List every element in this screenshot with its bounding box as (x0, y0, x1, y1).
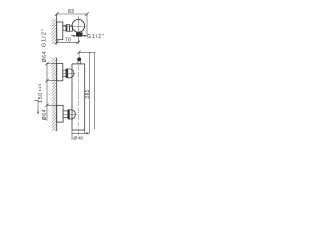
extension line at upper escutcheon bottom (47, 80, 57, 82)
svg-text:Ø64: Ø64 (42, 51, 48, 62)
tick at y=80.6 (45, 79, 48, 82)
svg-text:G1/2": G1/2" (42, 28, 48, 47)
extension line far right (94, 52, 96, 129)
wall section hatching (top view) (52, 19, 57, 45)
shower outlet stub (top view) (76, 33, 82, 37)
svg-text:281: 281 (85, 89, 91, 98)
svg-text:70: 70 (65, 38, 72, 44)
svg-text:Ø48: Ø48 (73, 135, 83, 141)
body tube centerline (dashed) (77, 65, 79, 130)
extension below tube left (71, 130, 73, 140)
lower union nut (dark) (68, 110, 70, 120)
dimension line D48 bottom (72, 132, 90, 134)
tick at y=63.5 (45, 62, 48, 65)
knob horizontal centerline (63, 25, 85, 27)
lower union pipe (63, 111, 68, 118)
knob circle (top view) (72, 19, 85, 32)
upper union centerline (63, 72, 76, 74)
tick right of dim 83 (85, 12, 89, 16)
dimension line 83 (57, 13, 87, 15)
top port neck (77, 61, 79, 64)
upper union pipe (63, 70, 66, 76)
union pipe (top view) (63, 26, 66, 31)
upper union dome (68, 69, 74, 78)
body tube left edge (71, 64, 73, 130)
left dimension vertical line (46, 64, 48, 121)
lower union centerline (63, 113, 77, 115)
port centerline stub (78, 52, 80, 57)
upper escutcheon (57, 64, 63, 81)
tick at top extension (77, 51, 80, 54)
body tube right edge (84, 64, 86, 130)
outlet dimension line left with arrow (71, 35, 76, 37)
lower escutcheon (57, 105, 63, 122)
svg-text:83: 83 (68, 9, 74, 15)
upper union nut (dark) (66, 69, 68, 78)
body tube bottom edge (72, 129, 85, 131)
extension stub below outlet (77, 37, 79, 44)
outlet dimension line right with arrow (83, 35, 87, 37)
tick left of dim 70 (55, 41, 59, 45)
dimension line 70 (57, 41, 79, 43)
svg-text:Ø64: Ø64 (42, 109, 48, 120)
extension line at lower escutcheon top (47, 104, 57, 106)
body tube top edge (72, 63, 85, 65)
dimension line 281 (88, 52, 90, 133)
knob vertical centerline (77, 16, 79, 33)
valve body stub (top view) (70, 26, 73, 31)
extension line at upper escutcheon top (47, 63, 57, 65)
extension below tube right (84, 130, 86, 134)
tick at y=105.5 (45, 104, 48, 107)
escutcheon plate (top view) (57, 22, 63, 40)
tick right of dim 70 (77, 41, 81, 45)
wall line (front view) (56, 58, 58, 132)
lower union dome (70, 110, 76, 120)
wall line (top view) (56, 14, 58, 45)
svg-text:G1/2": G1/2" (87, 34, 105, 40)
union nut (top view) (66, 25, 70, 32)
extension line right of dim 83 (86, 14, 88, 35)
tick left of dim 83 (55, 12, 59, 16)
top extension line (281) (79, 51, 95, 53)
leader for lower D64 (34, 100, 38, 112)
wall section hatching (front view) (52, 58, 57, 132)
top port circle (77, 58, 81, 62)
